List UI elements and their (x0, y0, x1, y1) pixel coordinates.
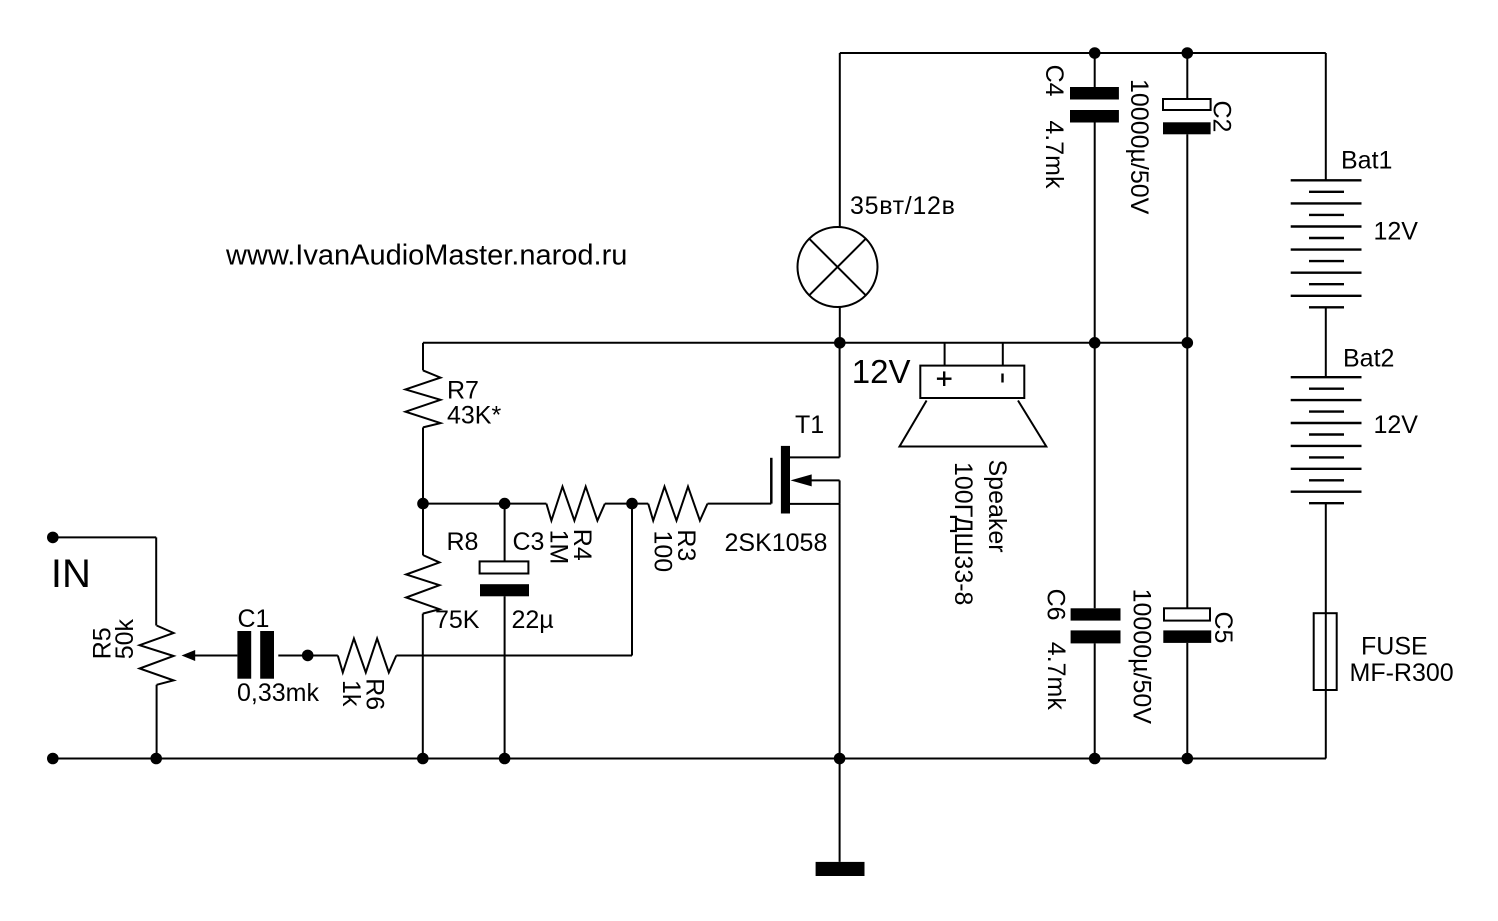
node top C4 (1089, 47, 1101, 59)
svg-text:10000µ/50V: 10000µ/50V (1125, 79, 1153, 215)
wire R7-R8 (422, 427, 424, 555)
svg-text:C5: C5 (1209, 612, 1237, 644)
label Bat2 (1343, 345, 1418, 440)
node top C2 (1182, 47, 1194, 59)
label T1 (725, 411, 828, 557)
svg-text:C4: C4 (1040, 65, 1068, 97)
svg-text:0,33mk: 0,33mk (237, 679, 319, 707)
lamp 35вт/12в (798, 227, 878, 307)
node lamp-drain junction (834, 337, 846, 349)
wire mid rail (423, 342, 1187, 344)
wire lamp top (839, 53, 841, 228)
svg-text:100: 100 (649, 531, 677, 573)
svg-text:43K*: 43K* (447, 402, 501, 430)
label R5 (89, 618, 140, 659)
node mid C4 (1089, 337, 1101, 349)
speaker minus (1001, 374, 1003, 383)
wire junction drop (396, 504, 632, 656)
wiper arrow (182, 650, 196, 661)
svg-text:IN: IN (51, 552, 91, 596)
node bottom R8 (417, 753, 429, 765)
resistor R6 (338, 639, 397, 673)
capacitor C1 (237, 631, 274, 679)
wire gate rail (423, 503, 546, 505)
wire Bat1-Bat2 (1325, 307, 1327, 377)
wire bottom rail (53, 758, 1326, 760)
label R7 (447, 376, 501, 429)
node bottom C3 (499, 753, 511, 765)
label C4 (1040, 65, 1068, 189)
node C3 top (499, 498, 511, 510)
svg-text:12V: 12V (1374, 218, 1419, 246)
node IN top (47, 532, 59, 544)
node C1-R6 junction (302, 650, 314, 662)
speaker cone (900, 401, 1047, 447)
svg-text:50k: 50k (111, 618, 139, 659)
label C1 (237, 605, 319, 707)
capacitor C2 (1163, 53, 1211, 343)
wire R6-C1 (278, 655, 338, 657)
speaker box (920, 366, 1024, 398)
label Speaker (949, 460, 1011, 606)
label C6 (1042, 589, 1070, 711)
node bottom C5 (1182, 753, 1194, 765)
svg-text:FUSE: FUSE (1361, 632, 1428, 660)
resistor R7 (406, 370, 441, 427)
node bottom IN (47, 753, 59, 765)
svg-text:T1: T1 (795, 411, 824, 439)
wire R5 bottom (156, 685, 158, 759)
label R8 (435, 528, 480, 634)
svg-text:C1: C1 (238, 605, 270, 633)
battery Bat1 (1291, 180, 1362, 307)
svg-text:C3: C3 (513, 528, 545, 556)
node bottom R5 (150, 753, 162, 765)
node bottom C6 (1089, 753, 1101, 765)
ground (816, 759, 865, 877)
svg-text:100ГДШ33-8: 100ГДШ33-8 (949, 462, 977, 605)
svg-text:4.7mk: 4.7mk (1040, 120, 1068, 189)
label R4 (545, 529, 596, 565)
capacitor C4 (1070, 53, 1119, 343)
resistor R4 (546, 487, 605, 521)
svg-text:1k: 1k (337, 680, 365, 707)
svg-text:R7: R7 (447, 376, 479, 404)
svg-text:4.7mk: 4.7mk (1042, 642, 1070, 711)
wire IN top (53, 537, 156, 625)
transistor T1 substrate arrow (791, 474, 840, 504)
label FUSE (1350, 632, 1454, 687)
node R4-R3 junction (626, 498, 638, 510)
label Bat1 (1341, 146, 1418, 245)
label C3 (512, 528, 554, 634)
wire top rail (840, 52, 1326, 54)
svg-text:2SK1058: 2SK1058 (725, 529, 828, 557)
transistor T1 gate electrode (770, 458, 773, 504)
wire C1-wiper (195, 655, 237, 657)
wire battery top (1325, 53, 1327, 180)
speaker terminals wire (945, 343, 1003, 366)
svg-text:MF-R300: MF-R300 (1350, 659, 1454, 687)
wire Bat2-fuse (1187, 503, 1326, 758)
svg-text:Speaker: Speaker (983, 460, 1011, 553)
svg-text:75K: 75K (435, 606, 480, 634)
svg-text:www.IvanAudioMaster.narod.ru: www.IvanAudioMaster.narod.ru (225, 240, 627, 272)
svg-text:C6: C6 (1042, 589, 1070, 621)
resistor R8 (406, 555, 439, 614)
label R3 (649, 529, 700, 572)
capacitor C3 (480, 504, 529, 759)
svg-text:10000µ/50V: 10000µ/50V (1128, 589, 1156, 725)
node gate rail left (417, 498, 429, 510)
transistor T1 source (790, 504, 840, 759)
svg-text:22µ: 22µ (512, 606, 554, 634)
resistor R3 (648, 487, 707, 521)
fuse MF-R300 (1314, 613, 1337, 690)
capacitor C5 (1163, 343, 1211, 759)
svg-text:1M: 1M (545, 530, 573, 565)
wire R7 top (422, 343, 424, 371)
label R6 (337, 678, 388, 710)
svg-text:12V: 12V (852, 353, 911, 390)
capacitor C6 (1071, 343, 1121, 759)
svg-text:35вт/12в: 35вт/12в (850, 192, 956, 220)
wire R8 bottom (422, 614, 424, 759)
svg-text:C2: C2 (1208, 101, 1236, 133)
transistor T1 drain (790, 343, 840, 458)
transistor T1 body bar (781, 446, 790, 514)
svg-text:12V: 12V (1374, 411, 1419, 439)
battery Bat2 (1291, 377, 1362, 503)
node bottom source (834, 753, 846, 765)
svg-text:Bat1: Bat1 (1341, 146, 1392, 174)
wire lamp bottom (839, 307, 841, 343)
svg-text:R8: R8 (447, 528, 479, 556)
svg-text:Bat2: Bat2 (1343, 345, 1394, 373)
wire R3-gate (708, 503, 772, 505)
speaker plus (937, 371, 952, 386)
wire R4-R3 (605, 503, 648, 505)
node mid C2 (1182, 337, 1194, 349)
potentiometer R5 (140, 626, 174, 685)
